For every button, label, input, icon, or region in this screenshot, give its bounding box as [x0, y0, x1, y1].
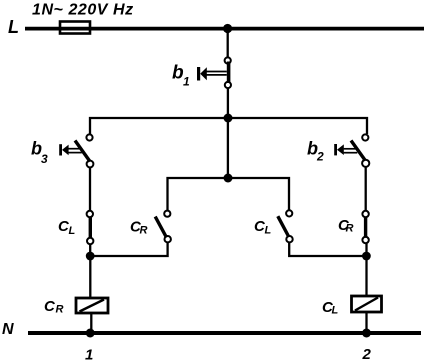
svg-text:N: N: [2, 321, 14, 338]
svg-text:L: L: [8, 17, 19, 37]
svg-text:2: 2: [362, 346, 372, 362]
svg-text:L: L: [332, 305, 339, 317]
svg-text:R: R: [346, 223, 354, 235]
svg-text:R: R: [56, 304, 64, 316]
svg-text:3: 3: [41, 152, 48, 166]
svg-text:1: 1: [183, 75, 190, 89]
svg-text:1: 1: [85, 347, 93, 362]
svg-text:L: L: [69, 225, 76, 237]
svg-text:2: 2: [316, 150, 324, 164]
svg-text:R: R: [140, 225, 148, 237]
svg-text:C: C: [44, 298, 56, 315]
svg-text:1N~ 220V Hz: 1N~ 220V Hz: [32, 2, 134, 19]
svg-text:L: L: [265, 225, 272, 237]
